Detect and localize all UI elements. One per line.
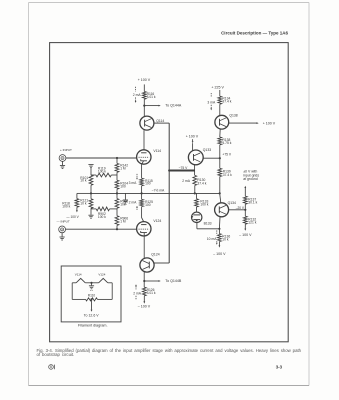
node filament bottom (90, 298, 92, 300)
wire R133 to B133 (196, 207, 198, 212)
svg-text:Q133: Q133 (203, 148, 211, 152)
svg-text:To Q144A: To Q144A (165, 104, 182, 108)
wire R115 to tap node (141, 186, 143, 194)
svg-text:37.4 k: 37.4 k (197, 181, 206, 185)
svg-text:4.75 k: 4.75 k (222, 141, 231, 145)
connector +INPUT (59, 155, 66, 162)
wire to Q144A arrow (144, 105, 160, 107)
svg-text:Q138: Q138 (229, 113, 237, 117)
ground stub on tap line (123, 193, 128, 204)
wire tap to R133 (196, 193, 198, 198)
wire Q138 emitter arrow to +100V (229, 122, 259, 124)
resistor R138 (218, 137, 222, 145)
transistor Q133 (188, 150, 203, 165)
wire R104 to tap line (116, 189, 118, 193)
wire R902 left lead (91, 208, 96, 210)
wire V124 cathode to Q124 (143, 233, 145, 258)
svg-text:– 100 V: – 100 V (138, 305, 151, 309)
resistor R126 (142, 287, 146, 296)
svg-text:— 100 V: — 100 V (66, 215, 79, 219)
wire R101 bottom to node (90, 185, 92, 193)
svg-text:To Q144B: To Q144B (165, 279, 182, 283)
wire B133 to Q134 emitter node (197, 223, 220, 229)
wire R906 to -grid (116, 225, 118, 229)
ground filament center (89, 283, 94, 291)
resistor R119 (96, 173, 111, 177)
wire +100V to R116 (143, 84, 145, 91)
resistor R133 (195, 199, 199, 207)
node Q134 base (219, 192, 221, 194)
transistor Q124 (140, 258, 154, 272)
node to Q144A (143, 105, 145, 107)
wire R136 to -100V (218, 242, 220, 248)
resistor R902 (96, 207, 109, 211)
svg-text:~7½ mA: ~7½ mA (152, 188, 165, 192)
wire R116 to Q114 (143, 99, 145, 116)
svg-text:Q124: Q124 (151, 252, 159, 256)
neon bulb B133 (192, 212, 202, 222)
svg-text:To 12.6 V: To 12.6 V (84, 314, 99, 318)
wire filament right side (111, 283, 113, 300)
resistor R905 (115, 199, 119, 209)
svg-text:10 k: 10 k (80, 201, 87, 205)
wire Q138 collector down (219, 129, 221, 137)
inset box filament diagram (61, 266, 121, 322)
wire node to R118 (77, 193, 91, 198)
current arrow 2 mA upper (135, 87, 137, 103)
connector -INPUT (59, 226, 66, 233)
svg-text:3-3: 3-3 (276, 365, 283, 370)
resistor R125 (140, 199, 144, 206)
svg-text:+ 100 V: + 100 V (263, 121, 276, 125)
wire R905-R906 (116, 208, 118, 216)
svg-text:1 M: 1 M (120, 167, 126, 171)
resistor R142 (115, 163, 119, 172)
ground below +INPUT (60, 162, 65, 169)
current arrow 10 mA (216, 230, 218, 244)
wire R125 to V124 plate (142, 207, 144, 222)
node -20V (244, 209, 246, 211)
wire Q134 emitter to -20V node (229, 209, 246, 211)
svg-text:– 100 V: – 100 V (239, 233, 252, 237)
wire tap node to R125 (141, 193, 143, 199)
svg-text:~75 V: ~75 V (179, 166, 189, 170)
svg-text:V114: V114 (153, 149, 161, 153)
wire +input grid line (66, 157, 137, 159)
svg-text:V124: V124 (98, 272, 105, 276)
wire Q134 collector down (218, 217, 221, 229)
wire filament bottom rail (72, 298, 112, 300)
svg-text:121 k: 121 k (248, 220, 256, 224)
wire R118 to -100V (76, 207, 78, 212)
wire R134 to Q138 (219, 104, 221, 115)
svg-text:3.01 k: 3.01 k (147, 291, 156, 295)
wire R142-R104 (116, 172, 118, 180)
svg-text:+ INPUT: + INPUT (60, 148, 72, 152)
issue mark (49, 365, 55, 370)
wire Q124 to node B (143, 272, 145, 287)
wire Q133 emitter to +75V node (203, 157, 220, 159)
resistor R136 (218, 234, 222, 242)
svg-text:100 k: 100 k (98, 169, 106, 173)
wire V114 cathode down (142, 161, 144, 178)
svg-text:Filament diagram.: Filament diagram. (78, 323, 108, 327)
vacuum tube V114 (137, 150, 151, 164)
svg-text:— INPUT: — INPUT (57, 219, 70, 223)
resistor R134 (218, 96, 222, 104)
svg-text:3 mA: 3 mA (207, 101, 216, 105)
node bias center (90, 192, 92, 194)
svg-text:Fig. 3-4. Simplified (partial): Fig. 3-4. Simplified (partial) diagram o… (37, 348, 302, 353)
wire Q114 emitter to rail (154, 122, 169, 124)
wire Q114 to V114 plate (143, 130, 145, 150)
node +grid / R142 (116, 157, 118, 159)
svg-text:Q114: Q114 (156, 119, 164, 123)
wire emitter rail (168, 123, 170, 263)
svg-text:10 mA: 10 mA (207, 237, 217, 241)
svg-text:+ 225 V: + 225 V (211, 86, 224, 90)
wire to R136 (218, 229, 220, 234)
resistor R137 (243, 196, 247, 204)
resistor R115 (140, 178, 144, 186)
svg-text:Circuit Description — Type 1A6: Circuit Description — Type 1A6 (221, 30, 288, 35)
node to Q144B (143, 280, 145, 282)
svg-text:Q134: Q134 (228, 201, 236, 205)
svg-text:10 k: 10 k (80, 179, 87, 183)
wire R121 top lead (90, 193, 92, 198)
wire node to R132 (244, 210, 246, 216)
wire R119 right lead (111, 174, 117, 176)
wire grid to R142 (116, 158, 118, 163)
wire R138 to +75V node (219, 145, 221, 158)
current arrow 3 mA right (210, 93, 212, 110)
svg-text:100: 100 (145, 203, 151, 207)
svg-text:3.01 k: 3.01 k (147, 95, 156, 99)
svg-text:of bootstrap circuit.: of bootstrap circuit. (37, 352, 75, 357)
node R130 tap (194, 192, 196, 194)
node +75V (219, 157, 221, 159)
page outline (29, 3, 310, 386)
current arrow 2 mA lower (135, 284, 137, 300)
current arrow 3 mA (136, 174, 138, 180)
ground above R101 (88, 165, 93, 176)
resistor R101 (89, 175, 93, 185)
svg-text:+75 V: +75 V (222, 153, 232, 157)
arrow +100V to Q133 (192, 139, 194, 150)
ground below R121 (88, 214, 93, 216)
svg-text:100 k: 100 k (62, 204, 70, 208)
resistor R104 (115, 180, 119, 189)
vacuum tube V124 (137, 222, 151, 236)
current arrow up col H (244, 186, 246, 196)
svg-text:100 k: 100 k (98, 215, 106, 219)
svg-text:2 mA: 2 mA (129, 201, 138, 205)
transistor Q138 (215, 115, 229, 129)
wire +75V node to R139 (219, 158, 221, 168)
wire R130 to tap line (194, 185, 196, 193)
current arrow 2 mA mid (136, 206, 138, 210)
transistor Q134 (215, 203, 229, 217)
svg-text:B133: B133 (204, 222, 212, 226)
resistor R139 (218, 168, 222, 176)
svg-text:37.4 k: 37.4 k (223, 173, 232, 177)
node -grid / R906 (116, 228, 118, 230)
transistor Q114 (140, 116, 154, 130)
resistor R130 (193, 175, 197, 185)
wire to heater supply (91, 299, 93, 311)
wire filament top rail (72, 282, 112, 284)
svg-text:+ 100 V: + 100 V (186, 134, 199, 138)
svg-text:2 mA: 2 mA (133, 93, 142, 97)
wire filament left side (71, 283, 73, 300)
filament V114 symbol (76, 278, 85, 282)
node Q134 bottom (218, 228, 220, 230)
resistor R116 (142, 91, 146, 99)
wire R902 right lead (110, 208, 118, 210)
filament V124 symbol (99, 278, 108, 282)
svg-text:10 k: 10 k (222, 238, 229, 242)
resistor R132 (243, 216, 247, 224)
wire R132 to -100V (244, 224, 246, 231)
svg-text:V124: V124 (153, 219, 161, 223)
wire R119 left lead (91, 174, 96, 176)
svg-text:R110: R110 (88, 294, 96, 298)
resistor R906 (115, 216, 119, 226)
wire R121 to ground (90, 208, 92, 215)
svg-text:100: 100 (145, 182, 151, 186)
svg-text:3 mA: 3 mA (129, 181, 138, 185)
svg-text:100 k: 100 k (200, 202, 208, 206)
svg-text:–20 V: –20 V (236, 206, 245, 210)
figure border (50, 43, 289, 342)
wire R126 to -100V (143, 296, 145, 304)
heavy bootstrap wire (169, 170, 194, 172)
node tap line R905 (116, 192, 118, 194)
svg-text:– 100 V: – 100 V (213, 252, 226, 256)
svg-text:+ 100 V: + 100 V (138, 78, 151, 82)
wire R137 to node (244, 204, 246, 210)
svg-text:1 M: 1 M (120, 219, 126, 223)
node rail bootstrap (168, 169, 170, 171)
svg-text:100: 100 (120, 184, 126, 188)
wire Q124 emitter to rail (154, 262, 169, 264)
node tap at tube column (141, 192, 143, 194)
wire center tap / bootstrap line to Q134 base (91, 192, 220, 194)
svg-text:37.4 k: 37.4 k (222, 100, 231, 104)
wire +225V down (219, 90, 221, 96)
svg-text:2 mA: 2 mA (182, 179, 191, 183)
svg-text:at ground: at ground (243, 177, 258, 181)
svg-text:2 mA: 2 mA (133, 292, 142, 296)
wire base node to Q134 (220, 193, 221, 203)
resistor R110 (86, 298, 98, 301)
svg-text:30.1 k: 30.1 k (248, 200, 257, 204)
svg-text:V114: V114 (75, 272, 82, 276)
wire R139 to Q134 base node (219, 177, 221, 194)
ground below -INPUT (60, 233, 65, 240)
wire Q133 collector down (194, 164, 196, 175)
resistor R118 (75, 199, 79, 208)
wire tap to R905 (116, 193, 118, 198)
resistor R121 (89, 199, 93, 209)
node filament top (90, 282, 92, 284)
wire to Q144B arrow (144, 280, 160, 282)
wire -input grid line (66, 228, 137, 230)
